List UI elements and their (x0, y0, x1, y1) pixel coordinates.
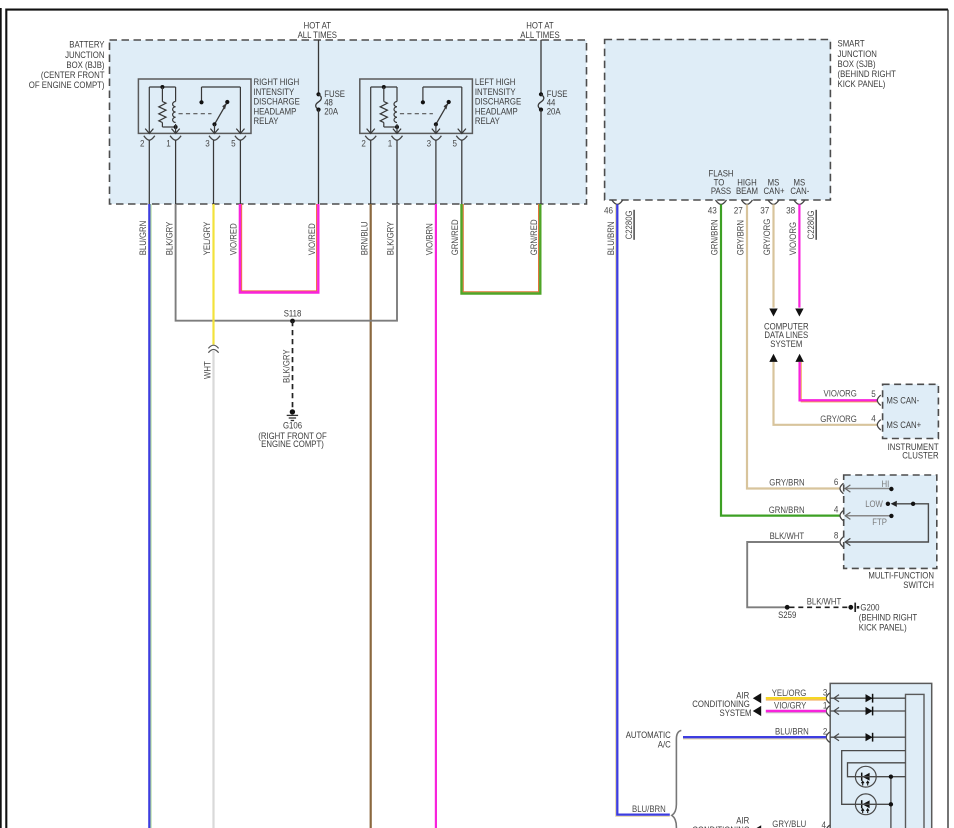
relay K1 (right HID headlamp relay): box (138, 77, 300, 133)
relay K2 (left HID headlamp relay): pin 2 (361, 129, 376, 149)
svg-text:6: 6 (834, 477, 839, 487)
svg-text:VIO/ORG: VIO/ORG (824, 389, 857, 399)
A/C module internal LED wiring (842, 751, 906, 828)
off-page node: COMPUTER DATA LINES SYSTEM (764, 321, 809, 349)
svg-text:KICK PANEL): KICK PANEL) (859, 622, 907, 632)
svg-text:LEFT HIGH: LEFT HIGH (475, 77, 516, 87)
svg-text:S118: S118 (284, 308, 302, 318)
relay K1 (right HID headlamp relay): pin 5 (231, 129, 246, 149)
power feed HOT AT ALL TIMES / fuse 44 (520, 20, 567, 204)
svg-text:BLU/GRN: BLU/GRN (138, 221, 148, 256)
svg-text:JUNCTION: JUNCTION (838, 49, 877, 59)
A/C module pin 3 diode row (823, 688, 906, 704)
svg-text:GRN/RED: GRN/RED (529, 219, 539, 255)
wire VIO/GRY (A/C module pin 1) (766, 701, 826, 713)
relay K2 (left HID headlamp relay): internal pin leads (371, 87, 462, 132)
svg-text:1: 1 (166, 138, 171, 148)
svg-text:DISCHARGE: DISCHARGE (254, 97, 300, 107)
relay K1 (right HID headlamp relay): pin 2 (140, 129, 155, 149)
svg-text:2: 2 (140, 138, 145, 148)
relay K2 (left HID headlamp relay): pin 3 (427, 129, 442, 149)
svg-text:1: 1 (388, 138, 393, 148)
svg-text:OF ENGINE COMPT): OF ENGINE COMPT) (29, 80, 105, 90)
instrument cluster pin 4 (MS CAN+) (871, 414, 921, 431)
MFS pin 6 (834, 477, 844, 494)
svg-text:S259: S259 (778, 610, 796, 620)
splice S118 (284, 308, 302, 323)
SJB connector C2280G (pin 46) (624, 210, 634, 240)
svg-text:GRY/BRN: GRY/BRN (736, 220, 746, 255)
svg-text:46: 46 (604, 205, 613, 215)
relay K2 (left HID headlamp relay): pin 5 (453, 129, 468, 149)
svg-text:5: 5 (231, 138, 236, 148)
svg-text:BLK/WHT: BLK/WHT (807, 596, 842, 606)
svg-text:GRN/BRN: GRN/BRN (710, 219, 720, 255)
wire VIO/ORG from SJB pin 38 to computer data lines system (788, 204, 804, 316)
SJB pin 38 label MS CAN- (790, 177, 809, 196)
relay K2 (left HID headlamp relay): box (360, 77, 522, 133)
relay K2 (left HID headlamp relay): coil (resistor + winding) (371, 85, 399, 129)
ground G106 (258, 409, 327, 449)
SJB pin 37 (760, 200, 779, 215)
MFS FTP contact (845, 512, 893, 527)
SJB pin 37 label MS CAN+ (764, 177, 785, 196)
wire BRN/BLU from relay K2 pin 2 (359, 140, 370, 828)
svg-text:BLU/BRN: BLU/BRN (775, 726, 809, 736)
svg-text:HEADLAMP: HEADLAMP (254, 106, 297, 116)
wire BLU/GRN from relay K1 pin 2 (138, 140, 151, 828)
svg-text:1: 1 (823, 700, 828, 710)
SJB pin 38 (786, 200, 805, 215)
power feed HOT AT ALL TIMES / fuse 48 (298, 20, 346, 204)
wire GRN/BRN from SJB pin 43 to multi-function switch pin 4 (710, 204, 840, 515)
svg-text:37: 37 (760, 205, 769, 215)
svg-text:(CENTER FRONT: (CENTER FRONT (41, 70, 105, 80)
relay K1 (right HID headlamp relay): pin 1 (166, 129, 181, 149)
svg-text:HOT AT: HOT AT (304, 20, 332, 30)
svg-text:GRY/ORG: GRY/ORG (762, 219, 772, 256)
svg-text:KICK PANEL): KICK PANEL) (838, 79, 886, 89)
svg-text:C2280G: C2280G (624, 210, 634, 239)
svg-text:2: 2 (823, 727, 828, 737)
svg-text:27: 27 (734, 205, 743, 215)
SJB pin 43 (708, 200, 727, 215)
svg-text:2: 2 (361, 138, 366, 148)
svg-text:VIO/RED: VIO/RED (307, 223, 317, 255)
svg-text:MS CAN+: MS CAN+ (886, 420, 921, 430)
wire GRY/BRN from SJB pin 27 to multi-function switch pin 6 (736, 204, 840, 488)
svg-text:20A: 20A (547, 106, 561, 116)
svg-text:GRY/BLU: GRY/BLU (772, 819, 806, 828)
MFS HI contact (845, 479, 893, 492)
svg-text:G106: G106 (283, 421, 302, 431)
svg-text:5: 5 (871, 389, 876, 399)
off-page arrows to AIR CONDITIONING SYSTEM (692, 691, 761, 719)
A/C module pin 2 diode row (823, 727, 906, 743)
svg-text:43: 43 (708, 205, 717, 215)
instrument cluster pin 5 (MS CAN-) (871, 389, 919, 406)
multi-function switch box (844, 475, 937, 590)
svg-text:MULTI-FUNCTION: MULTI-FUNCTION (868, 571, 934, 581)
relay K2 (left HID headlamp relay): contact set (400, 87, 462, 126)
svg-text:RELAY: RELAY (475, 116, 500, 126)
wire GRN/RED from relay K2 pin 5 to fuse 44 (450, 140, 540, 293)
svg-text:VIO/GRY: VIO/GRY (774, 701, 806, 711)
svg-text:(BEHIND RIGHT: (BEHIND RIGHT (838, 69, 897, 79)
SJB pin 46 (604, 200, 623, 215)
svg-text:BLU/BRN: BLU/BRN (632, 804, 666, 814)
wire VIO/RED from relay K1 pin 5 to fuse 48 (229, 140, 319, 292)
svg-text:HEADLAMP: HEADLAMP (475, 106, 518, 116)
svg-text:MS CAN-: MS CAN- (886, 396, 919, 406)
wire GRY/ORG from SJB pin 37 to computer data lines system (762, 204, 778, 316)
SJB pin 27 (734, 200, 753, 215)
svg-text:CAN-: CAN- (790, 186, 809, 196)
svg-text:PASS: PASS (711, 186, 731, 196)
svg-text:RELAY: RELAY (254, 116, 279, 126)
MFS LOW contact and wiper to pin 8 (845, 499, 928, 545)
smart junction box (SJB) (605, 39, 897, 200)
svg-text:AUTOMATIC: AUTOMATIC (626, 730, 672, 740)
svg-text:CLUSTER: CLUSTER (902, 450, 938, 460)
svg-text:4: 4 (834, 504, 839, 514)
svg-text:SYSTEM: SYSTEM (720, 708, 752, 718)
wire WHT to bottom of page (202, 351, 213, 828)
svg-text:C2280G: C2280G (806, 210, 816, 239)
svg-text:GRN/BRN: GRN/BRN (769, 505, 805, 515)
relay K2 (left HID headlamp relay): pin 1 (388, 129, 403, 149)
svg-text:ALL TIMES: ALL TIMES (520, 30, 560, 40)
svg-text:ENGINE COMPT): ENGINE COMPT) (261, 439, 324, 449)
LED backlight diode 1 (855, 766, 876, 787)
wire VIO/ORG from computer data lines to instrument cluster MS CAN- (795, 354, 877, 402)
svg-text:INTENSITY: INTENSITY (475, 87, 516, 97)
wire BLK/GRY from relay K1 pin 1 to splice S118 (164, 140, 292, 321)
svg-text:SWITCH: SWITCH (903, 580, 934, 590)
wire VIO/BRN from relay K2 pin 3 (425, 140, 436, 828)
svg-text:3: 3 (205, 138, 210, 148)
svg-text:(BEHIND RIGHT: (BEHIND RIGHT (859, 613, 918, 623)
svg-text:BLK/GRY: BLK/GRY (164, 222, 174, 256)
svg-text:BOX (SJB): BOX (SJB) (838, 59, 876, 69)
relay K1 (right HID headlamp relay): contact set (179, 87, 241, 126)
wire BLK/GRY from relay K2 pin 1 to splice S118 (293, 140, 398, 321)
svg-text:VIO/BRN: VIO/BRN (425, 223, 435, 255)
svg-text:A/C: A/C (658, 740, 672, 750)
wire YEL/ORG (A/C module pin 3) (766, 688, 826, 700)
svg-text:AIR: AIR (736, 815, 749, 825)
svg-text:SYSTEM: SYSTEM (770, 339, 802, 349)
LED backlight diode 2 (855, 794, 876, 815)
relay K1 (right HID headlamp relay): coil (resistor + winding) (149, 85, 177, 129)
svg-text:G200: G200 (860, 603, 879, 613)
svg-text:HOT AT: HOT AT (526, 20, 554, 30)
svg-text:CAN+: CAN+ (764, 186, 785, 196)
relay K1 (right HID headlamp relay): internal pin leads (149, 87, 240, 132)
svg-text:ALL TIMES: ALL TIMES (298, 30, 338, 40)
svg-text:YEL/ORG: YEL/ORG (772, 688, 807, 698)
MFS pin 4 (834, 504, 844, 521)
svg-text:BOX (BJB): BOX (BJB) (66, 60, 104, 70)
svg-text:LOW: LOW (865, 499, 883, 509)
svg-text:BLU/BRN: BLU/BRN (606, 222, 616, 256)
svg-text:4: 4 (822, 820, 827, 828)
svg-text:HI: HI (882, 479, 890, 489)
svg-text:BATTERY: BATTERY (69, 40, 104, 50)
splice S259 (778, 605, 796, 620)
wire YEL/GRY from relay K1 pin 3 (202, 140, 213, 344)
svg-text:3: 3 (427, 138, 432, 148)
svg-text:WHT: WHT (202, 361, 212, 379)
svg-text:DISCHARGE: DISCHARGE (475, 97, 521, 107)
svg-text:GRN/RED: GRN/RED (450, 219, 460, 255)
svg-text:VIO/ORG: VIO/ORG (788, 222, 798, 255)
ground G200 (848, 603, 917, 633)
svg-text:5: 5 (453, 138, 458, 148)
A/C module internal rail (906, 694, 925, 828)
A/C control module box (830, 683, 932, 828)
inline splice on YEL/GRY -> WHT wire (208, 345, 218, 353)
svg-text:JUNCTION: JUNCTION (65, 50, 104, 60)
svg-text:VIO/RED: VIO/RED (229, 223, 239, 255)
battery junction box (BJB) (29, 40, 587, 204)
svg-text:BLK/GRY: BLK/GRY (386, 222, 396, 256)
svg-text:INTENSITY: INTENSITY (254, 87, 295, 97)
wire BLU/BRN (A/C module pin 2, automatic A/C option) (683, 726, 826, 739)
wire BLK/WHT from MFS pin 8 to splice S259 (747, 531, 840, 607)
svg-text:BLK/GRY: BLK/GRY (281, 349, 291, 383)
SJB connector C2280G (pin 38) (806, 210, 816, 240)
svg-text:SMART: SMART (838, 39, 866, 49)
options brace: AUTOMATIC A/C vs air conditioning system (626, 730, 682, 828)
SJB pin 27 label HIGH BEAM (736, 177, 758, 196)
SJB pin 43 label FLASH TO PASS (708, 168, 733, 196)
A/C module pin 1 diode row (823, 700, 906, 716)
instrument cluster box (883, 384, 940, 460)
svg-text:FTP: FTP (872, 517, 887, 527)
wire BLK/GRY from S118 to ground G106 (281, 321, 292, 408)
svg-text:38: 38 (786, 205, 795, 215)
relay K1 (right HID headlamp relay): pin 3 (205, 129, 220, 149)
svg-text:RIGHT HIGH: RIGHT HIGH (254, 77, 300, 87)
A/C module pin 4 row (GRY/BLU, partially cut at page bottom) (692, 815, 829, 828)
svg-text:GRY/ORG: GRY/ORG (820, 414, 857, 424)
svg-text:YEL/GRY: YEL/GRY (202, 222, 212, 256)
wire BLK/WHT from S259 to ground G200 (790, 596, 849, 607)
wire GRY/ORG from computer data lines to instrument cluster MS CAN+ (769, 354, 877, 425)
svg-text:4: 4 (871, 414, 876, 424)
wire BLU/BRN from SJB pin 46 to A/C options brace (606, 204, 670, 816)
svg-text:8: 8 (834, 531, 839, 541)
svg-text:3: 3 (823, 688, 828, 698)
svg-text:BLK/WHT: BLK/WHT (770, 531, 805, 541)
svg-text:BEAM: BEAM (736, 186, 758, 196)
svg-text:GRY/BRN: GRY/BRN (769, 478, 804, 488)
svg-text:BRN/BLU: BRN/BLU (359, 222, 369, 256)
svg-text:20A: 20A (324, 106, 338, 116)
MFS pin 8 (834, 531, 844, 548)
